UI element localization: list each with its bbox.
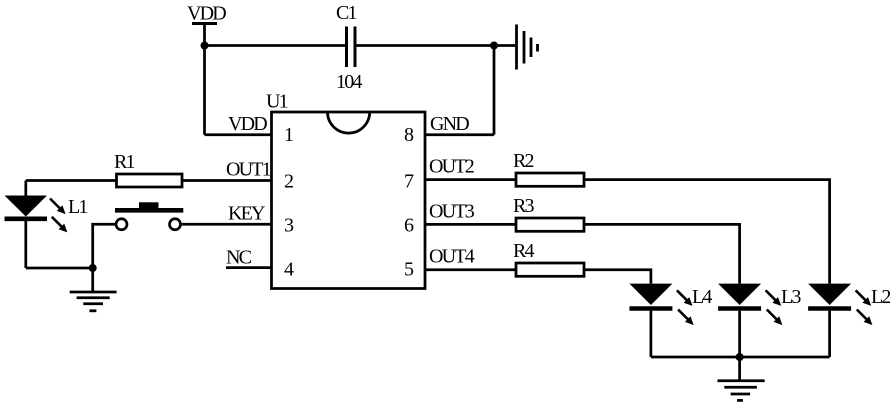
LED L2 [808,284,851,357]
LED L1 arrow 2 [52,217,68,233]
LED L2 arrow 1 [856,290,872,306]
svg-text:OUT2: OUT2 [429,156,474,178]
LED L1 arrow 1 [50,199,66,215]
switch S1 right contact [170,219,181,230]
svg-text:GND: GND [430,113,469,135]
resistor R4 [516,263,584,276]
svg-text:5: 5 [404,259,414,281]
LED L3 arrow 1 [766,290,782,306]
capacitor C1 [347,27,356,68]
svg-text:L4: L4 [692,286,712,308]
wire pin5 to R4 [425,268,516,271]
resistor R2 [516,173,584,186]
node junction VDD [201,42,209,50]
resistor R3 [516,218,584,231]
svg-text:4: 4 [284,259,294,281]
svg-text:OUT1: OUT1 [226,159,271,181]
node junction left ground [89,264,97,272]
wire R2 to L2 [584,180,830,284]
svg-text:U1: U1 [266,91,288,113]
svg-text:R1: R1 [114,151,135,173]
LED L3 [718,284,761,357]
wire VDD to C1 left [205,44,347,47]
op-amp U1 body (IC box) [272,112,426,289]
wire L1 top to R1 [26,179,117,182]
svg-text:L1: L1 [68,196,87,218]
svg-text:104: 104 [336,71,362,93]
wire LED bottoms common [651,356,830,359]
wire R4 to L4 [584,270,651,284]
svg-text:8: 8 [404,124,414,146]
svg-text:C1: C1 [336,2,357,24]
svg-text:7: 7 [404,171,414,193]
ground left [70,268,117,311]
LED L4 [629,284,672,357]
wire R3 to L3 [584,224,740,283]
wire VDD vertical to pin1 row [203,24,206,135]
svg-text:R4: R4 [513,240,535,262]
resistor R1 [117,174,183,187]
LED L4 arrow 1 [677,290,693,306]
svg-text:OUT4: OUT4 [429,246,475,268]
wire C1 right to junction [355,44,494,47]
wire pin4 NC stub [226,266,272,269]
svg-text:2: 2 [284,171,294,193]
svg-text:R2: R2 [513,150,534,172]
svg-text:L3: L3 [781,286,801,308]
wire GND junction down to pin8 row [493,46,496,135]
svg-text:R3: R3 [513,195,535,217]
wire junction to sideways ground [494,44,515,47]
switch S1 left contact [116,219,127,230]
wire pin1 VDD [205,133,272,136]
LED L4 arrow 2 [678,310,694,326]
svg-text:L2: L2 [871,286,890,308]
svg-text:3: 3 [284,215,294,237]
wire pin7 to R2 [425,178,516,181]
ground sideways earth [517,25,538,70]
svg-text:VDD: VDD [228,113,267,135]
power flag VDD bar [192,22,217,25]
node junction GND top [490,42,498,50]
svg-text:OUT3: OUT3 [429,201,475,223]
svg-text:NC: NC [226,247,252,269]
svg-text:6: 6 [404,215,414,237]
wire R1 to pin2 OUT1 [182,179,272,182]
switch S1 button bar [115,208,183,213]
wire switch to pin3 KEY [181,223,272,226]
switch S1 button cap [139,202,159,208]
svg-text:KEY: KEY [228,203,265,225]
LED L1 [24,181,27,196]
LED L2 arrow 2 [857,310,873,326]
wire L1 bottom to ground junction [26,267,93,270]
ground bottom [718,357,765,400]
wire switch left leg [93,224,116,268]
U1 notch [328,112,370,133]
svg-text:1: 1 [284,124,294,146]
wire pin6 to R3 [425,223,516,226]
wire pin8 GND [425,133,494,136]
LED L3 arrow 2 [767,310,783,326]
node junction bottom ground [736,353,744,361]
svg-text:VDD: VDD [187,3,226,25]
